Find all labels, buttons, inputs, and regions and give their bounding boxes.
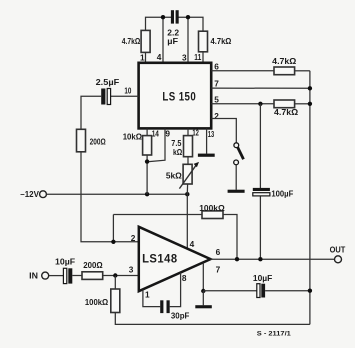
wire pin6 resistor to right bus: [295, 70, 310, 72]
node pin4/rail: [161, 15, 165, 19]
wire pin 4 vertical: [162, 17, 164, 63]
wire 100k top stub: [114, 276, 116, 290]
node 10k/pin9: [145, 159, 149, 163]
wire cap to 200: [72, 275, 82, 277]
wire pin5 resistor to bus: [295, 103, 310, 105]
svg-text:LS 150: LS 150: [162, 91, 196, 103]
pin label 7: [214, 79, 219, 89]
svg-text:IN: IN: [29, 271, 38, 281]
node pin7/bus: [308, 86, 312, 90]
wire 100uF bottom: [259, 196, 261, 259]
wire pin 11: [202, 52, 204, 63]
label 10uF output: [253, 273, 272, 283]
svg-text:14: 14: [152, 128, 159, 138]
label LS 150: [162, 91, 196, 103]
capacitor 10uF input: [63, 268, 72, 283]
pin label 9: [165, 128, 170, 138]
resistor 4.7k pin5: [274, 100, 295, 108]
svg-text:3: 3: [129, 265, 134, 275]
wire IN to cap: [49, 275, 64, 277]
svg-text:11: 11: [194, 52, 201, 62]
resistor 4.7k left: [141, 30, 150, 52]
pin label 7 LS148: [216, 265, 221, 275]
wire pin 8 LS148: [170, 273, 181, 307]
terminal IN: [42, 272, 49, 279]
label 5k: [166, 170, 182, 180]
svg-text:30pF: 30pF: [171, 310, 190, 320]
wire pin 1: [145, 52, 147, 63]
pin label 11: [194, 52, 201, 62]
wire pin 7: [211, 87, 310, 89]
wire 7.5k to 5k: [187, 157, 189, 165]
label LS148: [142, 253, 178, 265]
pin label 1: [140, 52, 145, 62]
pin label 1 LS148: [145, 289, 150, 299]
svg-text:12: 12: [192, 128, 199, 138]
svg-text:4.7kΩ: 4.7kΩ: [274, 107, 298, 117]
resistor 200 upper: [77, 129, 86, 152]
svg-text:6: 6: [214, 61, 219, 71]
svg-text:2: 2: [214, 111, 219, 121]
resistor 100k feedback: [202, 211, 223, 219]
wire pin 3 vertical: [187, 17, 189, 63]
wire pin 9: [149, 129, 165, 162]
node out/100k: [235, 257, 239, 261]
node pin5/100uF: [258, 102, 262, 106]
svg-text:10: 10: [124, 86, 131, 96]
wire mid horizontal to 100k: [113, 214, 202, 216]
resistor 4.7k pin6: [274, 67, 295, 75]
label 2.5uF: [96, 77, 120, 87]
ground LS148: [195, 305, 212, 308]
resistor 7.5k: [184, 136, 193, 157]
ground pin13: [198, 154, 215, 157]
label 100uF: [271, 188, 293, 198]
ground switch: [228, 190, 245, 193]
capacitor 2.5uF: [101, 89, 110, 105]
svg-text:10µF: 10µF: [253, 273, 272, 283]
resistor 4.7k right-top: [199, 31, 208, 52]
label OUT: [330, 245, 346, 255]
terminal OUT: [335, 256, 342, 263]
node rail/10k: [145, 192, 149, 196]
resistor 200 input: [82, 272, 103, 280]
svg-text:100kΩ: 100kΩ: [85, 297, 108, 307]
switch S1: [234, 143, 244, 165]
pin label 3 LS148: [129, 265, 134, 275]
wire pin 2 to switch: [211, 119, 236, 143]
capacitor 2.2uF: [171, 10, 179, 23]
svg-text:8: 8: [182, 273, 187, 283]
svg-text:100µF: 100µF: [271, 188, 293, 198]
wire cap to corner: [81, 96, 101, 129]
svg-text:5kΩ: 5kΩ: [166, 170, 182, 180]
label 4.7k pin5: [274, 107, 298, 117]
label 4.7k left: [122, 36, 141, 46]
wire pin 7 LS148: [202, 263, 204, 291]
pin label 5: [214, 95, 219, 105]
op-amp U1 LS150 box: [139, 63, 212, 129]
svg-text:5: 5: [214, 95, 219, 105]
node pin5-line/bus: [308, 102, 312, 106]
potentiometer 5k: [179, 162, 199, 189]
wire top rail left segment: [146, 17, 172, 30]
wire pin 10: [111, 95, 139, 97]
svg-text:–12V: –12V: [20, 189, 39, 199]
resistor 100k input: [111, 289, 120, 313]
svg-text:7: 7: [216, 265, 221, 275]
svg-text:4.7kΩ: 4.7kΩ: [272, 56, 296, 66]
label 4.7k right: [211, 36, 232, 46]
capacitor 10uF output: [257, 284, 265, 298]
node 10uF/bus: [308, 289, 312, 293]
svg-text:2: 2: [131, 233, 136, 243]
svg-text:7: 7: [214, 79, 219, 89]
svg-text:9: 9: [165, 128, 170, 138]
pin label 13: [208, 129, 215, 139]
svg-text:200Ω: 200Ω: [83, 260, 103, 270]
svg-text:µF: µF: [167, 36, 178, 46]
pin label 8 LS148: [182, 273, 187, 283]
wire noninv node vertical: [112, 215, 114, 242]
wire pin7 to 10uF: [203, 290, 256, 292]
wire 100k right to out: [223, 215, 237, 260]
wire pin 2 LS148: [113, 241, 138, 243]
wire 100k bottom to rail: [115, 313, 310, 325]
svg-text:6: 6: [216, 247, 221, 257]
svg-text:OUT: OUT: [330, 245, 346, 255]
node pin2 LS148: [111, 240, 115, 244]
pin label 2: [214, 111, 219, 121]
wire 10k bottom to rail: [146, 155, 148, 194]
label 10k: [123, 132, 142, 142]
wire switch to ground: [235, 165, 237, 190]
wire pin 1 LS148: [143, 290, 160, 307]
label 30pF: [171, 310, 190, 320]
wire pin 12: [187, 129, 189, 136]
terminal -12V: [40, 191, 47, 198]
svg-text:S - 2117/1: S - 2117/1: [257, 330, 292, 337]
svg-text:LS148: LS148: [142, 253, 178, 265]
wire 100uF top: [259, 104, 261, 188]
svg-text:kΩ: kΩ: [173, 147, 182, 157]
pin label 6: [214, 61, 219, 71]
pin label 4 LS148: [190, 239, 195, 249]
label 7.5k: [171, 138, 182, 157]
node pin3/rail: [186, 15, 190, 19]
label 200 input: [83, 260, 103, 270]
label 4.7k pin6: [272, 56, 296, 66]
pin label 3: [182, 52, 187, 62]
node out/100uF: [258, 257, 262, 261]
node rail/5k/pin4: [185, 192, 189, 196]
svg-text:10kΩ: 10kΩ: [123, 132, 142, 142]
svg-text:4.7kΩ: 4.7kΩ: [122, 36, 141, 46]
wire pin 6: [211, 70, 274, 72]
label 200 upper: [90, 137, 106, 147]
label -12V: [20, 189, 39, 199]
op-amp U2 LS148: [139, 227, 211, 291]
svg-text:13: 13: [208, 129, 215, 139]
svg-text:3: 3: [182, 52, 187, 62]
resistor 10k: [143, 136, 152, 155]
pin label 14: [152, 128, 159, 138]
wire pin 14: [146, 129, 148, 136]
capacitor 30pF: [160, 300, 170, 313]
wire pin 13: [206, 129, 208, 154]
svg-text:200Ω: 200Ω: [90, 137, 106, 147]
wire top rail right segment: [179, 17, 204, 31]
wire 200 to pin3: [103, 275, 139, 277]
svg-text:1: 1: [145, 289, 150, 299]
wire output line: [211, 258, 335, 260]
svg-text:4.7kΩ: 4.7kΩ: [211, 36, 232, 46]
wire 10uF to bus: [265, 290, 310, 292]
label 100k input: [85, 297, 108, 307]
svg-text:100kΩ: 100kΩ: [199, 203, 225, 213]
node IN line/100k: [113, 273, 117, 277]
node pin7: [201, 289, 205, 293]
wire 200ohm down to corner: [81, 152, 113, 242]
wire right bus vertical: [309, 71, 311, 325]
pin label 4: [157, 52, 162, 62]
label 2.2uF: [167, 28, 179, 46]
svg-text:10µF: 10µF: [55, 256, 75, 266]
pin label 10: [124, 86, 131, 96]
wire pin7 to ground: [202, 291, 204, 305]
label IN: [29, 271, 38, 281]
capacitor 100uF: [253, 188, 270, 196]
label S-2117/1: [257, 330, 292, 337]
pin label 6 LS148: [216, 247, 221, 257]
pin label 2 LS148: [131, 233, 136, 243]
svg-text:4: 4: [190, 239, 195, 249]
svg-text:4: 4: [157, 52, 162, 62]
wire pin 4 of LS148: [186, 194, 188, 249]
wire 5k bottom: [186, 184, 188, 194]
svg-text:1: 1: [140, 52, 145, 62]
svg-text:2.5µF: 2.5µF: [96, 77, 120, 87]
wire -12V rail: [47, 193, 188, 195]
label 100k feedback: [199, 203, 225, 213]
pin label 12: [192, 128, 199, 138]
label 10uF input: [55, 256, 75, 266]
wire pin 5: [211, 103, 274, 105]
